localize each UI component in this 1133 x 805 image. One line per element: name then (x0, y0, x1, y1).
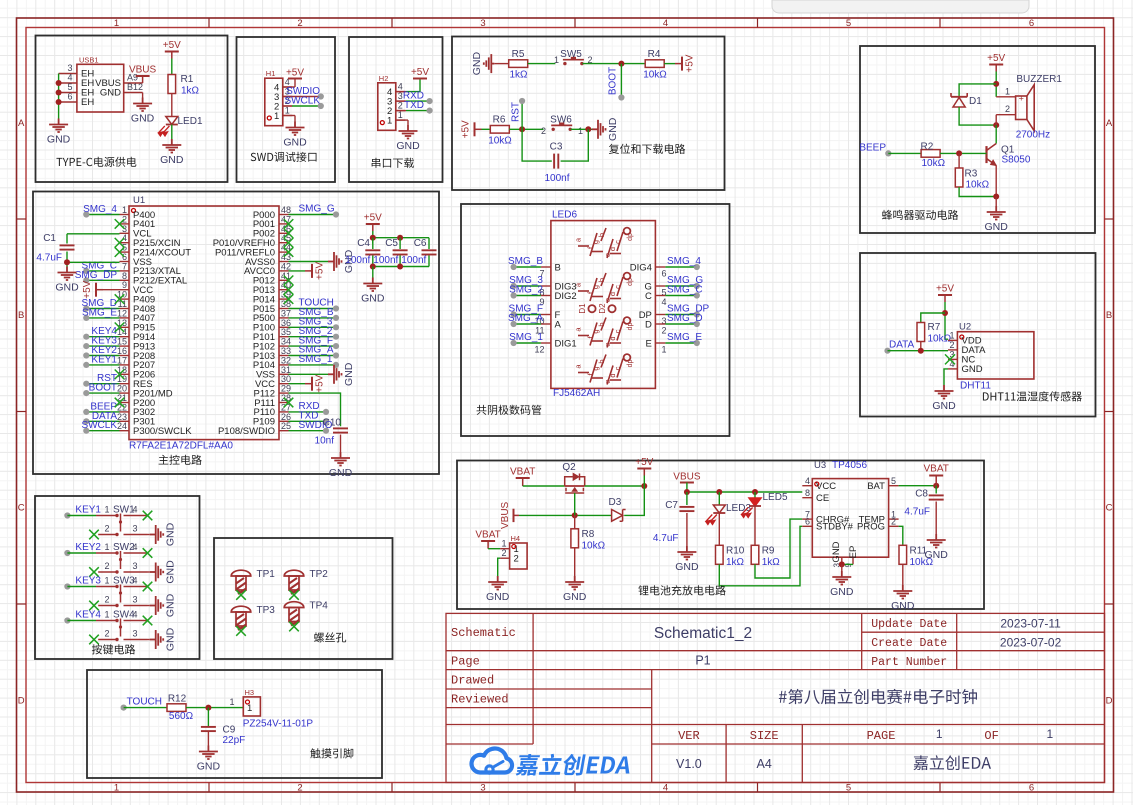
junction (572, 512, 578, 518)
svg-text:3: 3 (132, 561, 137, 571)
wire P112 to C10 (289, 393, 341, 426)
logo JLC EDA cloud (472, 748, 512, 773)
svg-text:TOUCH: TOUCH (127, 697, 162, 708)
svg-text:SMG_DP: SMG_DP (75, 270, 118, 281)
svg-text:e: e (603, 342, 612, 346)
svg-text:D1: D1 (578, 303, 587, 314)
switch SW3 (96, 576, 148, 608)
svg-text:Update Date: Update Date (871, 618, 947, 631)
wire LED5 to R9 (754, 506, 756, 545)
wire +5V to R1 (171, 59, 173, 75)
wire cap bottom rail (373, 266, 429, 268)
svg-text:6: 6 (67, 92, 72, 102)
capacitor C1 (66, 234, 68, 244)
net label RXD (U1 pin 27) (289, 411, 327, 413)
no-connect SW4 pin2 (89, 635, 99, 645)
svg-text:dp: dp (627, 233, 634, 241)
ground GND R11 (893, 585, 912, 599)
svg-text:5: 5 (846, 783, 851, 794)
junction (397, 235, 403, 241)
no-connect pin 46 (284, 229, 294, 239)
led LED5 (754, 492, 756, 498)
svg-text:5: 5 (846, 18, 851, 29)
svg-text:SMG_E: SMG_E (667, 332, 702, 343)
wire VBUS to junction (519, 514, 612, 516)
wire C9 to GND (207, 731, 209, 745)
section title 共阴极数码管 (477, 405, 542, 415)
svg-text:+5V: +5V (315, 262, 326, 280)
svg-text:VBUS: VBUS (500, 501, 511, 529)
svg-text:R9: R9 (762, 546, 775, 557)
svg-text:P108/SWDIO: P108/SWDIO (218, 426, 275, 437)
svg-text:3: 3 (132, 595, 137, 605)
wire to Q1 collector (995, 125, 997, 143)
screw TP1 (231, 570, 251, 594)
svg-text:R2: R2 (921, 142, 934, 153)
svg-text:SMG_4: SMG_4 (83, 204, 117, 215)
ground GND C10 (331, 452, 350, 466)
no-connect pin 39 (284, 294, 294, 304)
wire VBAT to Q2 (523, 485, 565, 487)
svg-text:c: c (613, 285, 622, 289)
svg-text:GND: GND (891, 600, 915, 612)
junction (56, 90, 62, 96)
svg-text:P1: P1 (695, 654, 710, 668)
svg-text:+5V: +5V (987, 53, 1005, 64)
wire R2 to base (940, 152, 986, 154)
svg-text:1: 1 (274, 111, 279, 122)
wire D1 to bottom (959, 107, 996, 125)
wire LED1 to GND (171, 125, 173, 140)
switch SW1 (96, 505, 148, 537)
wire R12 to H3 (186, 707, 243, 709)
svg-text:R1: R1 (181, 74, 194, 85)
svg-text:GND: GND (985, 221, 1009, 233)
svg-text:KEY1: KEY1 (91, 354, 117, 365)
junction (993, 122, 999, 128)
wire R9 to CHRG (755, 519, 802, 578)
svg-text:H2: H2 (379, 74, 389, 83)
svg-text:22pF: 22pF (223, 735, 246, 746)
no-connect pin 5 (115, 247, 125, 257)
svg-text:4.7uF: 4.7uF (653, 533, 679, 544)
wire +5V to caps (372, 231, 374, 244)
svg-text:GND: GND (471, 52, 483, 76)
svg-text:B12: B12 (127, 82, 143, 92)
frame row ticks (17, 218, 27, 220)
net label BEEP (885, 150, 891, 156)
svg-text:R11: R11 (910, 546, 928, 557)
wire VCC rail (687, 491, 802, 493)
ground GND C1 (58, 267, 77, 281)
svg-text:KEY3: KEY3 (75, 576, 101, 587)
net label SMG_C (LED6 pin 4 C) (655, 295, 665, 297)
svg-text:2: 2 (104, 629, 109, 639)
svg-text:SW4: SW4 (113, 610, 135, 621)
section title SWD调试接口 (251, 152, 317, 162)
svg-text:3: 3 (132, 629, 137, 639)
net label SWDIO (283, 96, 321, 98)
section box reset-download (452, 37, 725, 191)
svg-text:10kΩ: 10kΩ (928, 334, 952, 345)
svg-text:C1: C1 (43, 233, 56, 244)
svg-text:g: g (591, 240, 600, 244)
svg-text:GND: GND (932, 400, 956, 412)
net label TXD (397, 110, 406, 112)
svg-text:C10: C10 (323, 418, 342, 429)
net label SMG_2 (U1 pin 35) (289, 336, 337, 338)
wire USB left pins bus (58, 74, 60, 119)
ground GND H2 (397, 119, 408, 121)
wire C8 to GND (935, 502, 937, 535)
power +5V buzzer (995, 65, 997, 72)
ground GND caps (363, 278, 382, 292)
svg-text:2: 2 (662, 326, 667, 336)
svg-text:3: 3 (132, 524, 137, 534)
svg-text:GND: GND (831, 541, 842, 562)
net label SMG_B (LED6 pin 7 B) (541, 266, 551, 268)
diode D3 (612, 510, 626, 522)
wire R8 to GND (574, 548, 576, 576)
svg-text:1: 1 (114, 783, 119, 794)
svg-text:GND: GND (165, 593, 177, 617)
wire BAT to VBAT (899, 485, 937, 487)
svg-text:d: d (608, 373, 617, 377)
svg-text:D1: D1 (969, 96, 982, 107)
svg-text:1: 1 (936, 727, 943, 741)
svg-text:BEEP: BEEP (859, 142, 886, 153)
colon leds D1 D2 (588, 305, 595, 312)
ground GND U3 (832, 571, 851, 585)
svg-text:LED1: LED1 (178, 116, 203, 127)
net label SWDIO (U1 pin 25) (289, 430, 327, 432)
wire GND EP join (842, 563, 853, 565)
svg-text:BAT: BAT (867, 481, 885, 492)
wire H4 pin2 to GND (498, 558, 500, 576)
wire VBAT to H4 pin1 (488, 548, 500, 550)
ground GND B12 (142, 93, 144, 98)
resistor R2 (921, 150, 940, 158)
svg-text:g: g (591, 366, 600, 370)
svg-text:D3: D3 (609, 497, 622, 508)
ground GND R8 (565, 576, 584, 590)
toolbar overlay (772, 0, 1029, 13)
svg-text:10kΩ: 10kΩ (488, 136, 512, 147)
junction (397, 264, 403, 270)
svg-text:4.7uF: 4.7uF (904, 507, 930, 518)
svg-text:DIG1: DIG1 (555, 338, 577, 349)
ic U2 DHT11 (948, 322, 1034, 380)
no-connect pin 47 (284, 219, 294, 229)
power +5V row2 (475, 128, 482, 130)
connector H1 (265, 69, 293, 126)
svg-text:10kΩ: 10kΩ (643, 70, 667, 81)
svg-text:R3: R3 (965, 169, 978, 180)
ic LED6 FJ5462AH (551, 210, 656, 389)
wire Q2 to +5V junction (585, 485, 645, 487)
net label KEY4 (64, 617, 70, 623)
svg-text:2: 2 (501, 548, 506, 558)
section title TYPE-C电源供电 (56, 157, 136, 167)
svg-text:USB1: USB1 (79, 56, 99, 65)
svg-text:2: 2 (541, 126, 546, 136)
no-connect SW3 pin2 (89, 601, 99, 611)
svg-text:+5V: +5V (163, 40, 181, 51)
svg-text:dp: dp (627, 278, 634, 286)
screw TP4 (284, 602, 304, 626)
no-connect pin 28 (284, 398, 294, 408)
capacitor C10 (333, 427, 348, 429)
net label SMG_4 (LED6 pin 6 DIG4) (655, 266, 665, 268)
net label BEEP (U1 pin 22) (86, 411, 119, 413)
svg-text:1kΩ: 1kΩ (181, 86, 200, 97)
svg-text:100nf: 100nf (373, 255, 398, 266)
resistor R1 (168, 75, 176, 94)
logo JLC EDA text (515, 754, 633, 776)
wire DATA to pin2 (888, 350, 949, 352)
svg-text:1: 1 (104, 610, 109, 620)
svg-text:B: B (18, 310, 24, 321)
svg-text:Reviewed: Reviewed (451, 692, 509, 706)
power +5V H2 (397, 91, 406, 93)
net label RST (U1 pin 19) (86, 383, 119, 385)
no-connect SW3 pin4 (143, 582, 153, 592)
section title 复位和下载电路 (609, 144, 685, 154)
connector USB1 (59, 56, 143, 113)
svg-text:1: 1 (387, 116, 392, 127)
svg-text:U1: U1 (133, 195, 145, 206)
svg-text:V1.0: V1.0 (676, 757, 702, 771)
resistor R8 (571, 529, 579, 548)
svg-text:SIZE: SIZE (750, 729, 779, 743)
svg-text:Page: Page (451, 654, 480, 668)
svg-text:LED6: LED6 (552, 210, 577, 221)
svg-text:GND: GND (607, 117, 619, 141)
svg-text:DHT11: DHT11 (960, 381, 991, 392)
svg-text:b: b (597, 359, 606, 363)
net label SMG_B (U1 pin 37) (289, 317, 337, 319)
section title 螺丝孔 (314, 632, 346, 642)
svg-text:SMG_2: SMG_2 (509, 285, 543, 296)
title project name (779, 689, 977, 704)
ic U1 R7FA2E1A72DFL (129, 195, 279, 440)
capacitor C9 (201, 726, 216, 728)
switch SW2 (96, 542, 148, 574)
svg-text:GND: GND (361, 293, 385, 305)
no-connect SW1 pin4 (143, 511, 153, 521)
no-connect SW1 pin2 (89, 530, 99, 540)
svg-text:1: 1 (285, 106, 290, 116)
svg-text:SMG_4: SMG_4 (667, 256, 701, 267)
power +5V AVCC0 (305, 270, 312, 272)
svg-text:2: 2 (104, 595, 109, 605)
svg-text:C: C (1106, 503, 1113, 514)
svg-text:1: 1 (229, 697, 234, 707)
power +5V DHT11 (944, 295, 946, 302)
svg-text:R7FA2E1A72DFL#AA0: R7FA2E1A72DFL#AA0 (129, 441, 233, 452)
wire C1 to VSS (66, 252, 68, 267)
svg-text:R7: R7 (928, 322, 941, 333)
svg-text:A: A (1106, 118, 1113, 129)
svg-text:CE: CE (816, 493, 829, 504)
led LED1 (166, 117, 178, 125)
ground GND VSS pin31 (289, 373, 329, 375)
svg-text:D: D (1106, 696, 1113, 707)
svg-text:3: 3 (480, 783, 485, 794)
svg-text:d: d (608, 336, 617, 340)
svg-text:b: b (597, 278, 606, 282)
svg-text:+5V: +5V (936, 284, 954, 295)
svg-text:OF: OF (984, 729, 998, 743)
svg-text:1: 1 (662, 345, 667, 355)
svg-text:GND: GND (830, 586, 854, 598)
ground GND H1 (283, 115, 295, 117)
junction (64, 259, 70, 265)
wire C9 down (207, 708, 209, 727)
junction (933, 483, 939, 489)
section box SWD (237, 37, 336, 182)
capacitor C6 (428, 238, 430, 249)
ground GND SW2 (148, 571, 150, 573)
svg-text:TP4: TP4 (310, 601, 329, 612)
power +5V R1 (171, 52, 173, 59)
svg-text:SMG_D: SMG_D (667, 313, 703, 324)
svg-text:e: e (603, 253, 612, 257)
resistor R3 (955, 168, 963, 187)
section title 触摸引脚 (310, 748, 353, 758)
section title 按键电路 (92, 644, 135, 654)
resistor R12 (167, 704, 186, 712)
svg-text:DIG2: DIG2 (555, 291, 577, 302)
svg-text:R12: R12 (168, 694, 187, 705)
svg-text:C3: C3 (550, 142, 563, 153)
junction (918, 348, 924, 354)
diode D1 zener (951, 93, 982, 107)
led LED3 (718, 492, 720, 505)
svg-text:EH: EH (81, 97, 94, 108)
svg-text:A: A (18, 118, 25, 129)
svg-text:+5V: +5V (286, 68, 304, 79)
svg-text:S8050: S8050 (1002, 155, 1031, 166)
ground GND LED1 (162, 139, 181, 153)
junction (205, 705, 211, 711)
svg-text:2023-07-02: 2023-07-02 (1000, 635, 1062, 649)
svg-text:SMG_A: SMG_A (508, 313, 543, 324)
net label BOOT (U1 pin 20) (86, 392, 119, 394)
capacitor C7 (686, 492, 688, 505)
switch SW4 (96, 610, 148, 642)
ground GND usb (49, 119, 68, 133)
section title 蜂鸣器驱动电路 (882, 210, 958, 220)
svg-text:25: 25 (281, 421, 291, 431)
junction (585, 126, 591, 132)
ground GND buzzer (987, 206, 1006, 220)
no-connect pin 4 (115, 238, 125, 248)
wire PROG to R11 (899, 526, 903, 545)
net label SMG_3 (LED6 pin 8 DIG3) (541, 285, 551, 287)
svg-text:2: 2 (891, 517, 896, 527)
svg-text:PAGE: PAGE (867, 729, 896, 743)
svg-text:GND: GND (962, 364, 983, 375)
digit glyph 1 (578, 228, 630, 258)
svg-text:24: 24 (117, 421, 127, 431)
svg-text:GND: GND (563, 591, 587, 603)
wire +5V down to junction (945, 302, 948, 339)
svg-text:c: c (613, 240, 622, 244)
net label RXD (397, 100, 406, 102)
svg-text:4: 4 (662, 297, 667, 307)
title value 嘉立创EDA (914, 755, 991, 770)
wire gate to R8 (574, 515, 576, 528)
resistor R6 (490, 126, 509, 134)
svg-text:BUZZER1: BUZZER1 (1016, 74, 1062, 85)
no-connect SW2 pin4 (143, 548, 153, 558)
svg-text:4: 4 (663, 18, 668, 29)
wire R7 to DATA (920, 342, 922, 351)
svg-text:b: b (597, 233, 606, 237)
svg-text:H1: H1 (266, 69, 276, 78)
net label SMG_D (LED6 pin 2 D) (655, 323, 665, 325)
junction (993, 194, 999, 200)
svg-text:+: + (1019, 94, 1024, 104)
wire R3 top (958, 153, 960, 168)
svg-text:Create Date: Create Date (871, 637, 947, 650)
svg-text:2: 2 (1005, 104, 1010, 114)
ground GND C9 (199, 746, 218, 760)
svg-text:B: B (1106, 310, 1112, 321)
ground GND SW3 (148, 605, 150, 607)
svg-text:C6: C6 (414, 238, 427, 249)
no-connect pin 44 (284, 247, 294, 257)
no-connect SW2 pin2 (89, 567, 99, 577)
junction (618, 61, 624, 67)
svg-text:VBUS: VBUS (129, 65, 157, 76)
net label SMG_C (U1 pin 7) (86, 270, 119, 272)
svg-text:EP: EP (848, 546, 859, 559)
no-connect pin 40 (284, 285, 294, 295)
svg-text:BOOT: BOOT (89, 383, 117, 394)
svg-text:GND: GND (160, 154, 184, 166)
svg-text:R6: R6 (493, 115, 506, 126)
svg-text:3: 3 (67, 63, 72, 73)
svg-text:P300/SWCLK: P300/SWCLK (133, 426, 192, 437)
connector H3 PZ254V (229, 688, 260, 716)
wire R1 to LED1 (171, 94, 173, 117)
ground GND H4 (488, 576, 507, 590)
svg-text:d: d (608, 292, 617, 296)
section title 主控电路 (159, 455, 202, 465)
power flag VBAT C8 (935, 476, 937, 486)
svg-text:Q2: Q2 (562, 462, 576, 473)
net label TXD (U1 pin 26) (289, 420, 327, 422)
wire junction down to D3 (624, 486, 644, 515)
ground GND AVSS0 (289, 261, 329, 263)
net label SMG_G (LED6 pin 5 G) (655, 285, 665, 287)
ic U3 TP4056 (802, 460, 898, 567)
svg-text:SW5: SW5 (560, 49, 582, 60)
svg-text:2: 2 (514, 554, 519, 565)
svg-text:SMG_E: SMG_E (82, 307, 117, 318)
svg-text:10kΩ: 10kΩ (922, 158, 946, 169)
svg-text:VBAT: VBAT (924, 464, 949, 475)
svg-text:6: 6 (1029, 18, 1034, 29)
svg-text:R4: R4 (648, 49, 661, 60)
net label BOOT (620, 64, 622, 98)
section box keys (35, 496, 200, 659)
section box buzzer (860, 46, 1095, 233)
net label SMG_1 (LED6 pin 12 DIG1) (541, 342, 551, 344)
net label TOUCH (121, 705, 127, 711)
